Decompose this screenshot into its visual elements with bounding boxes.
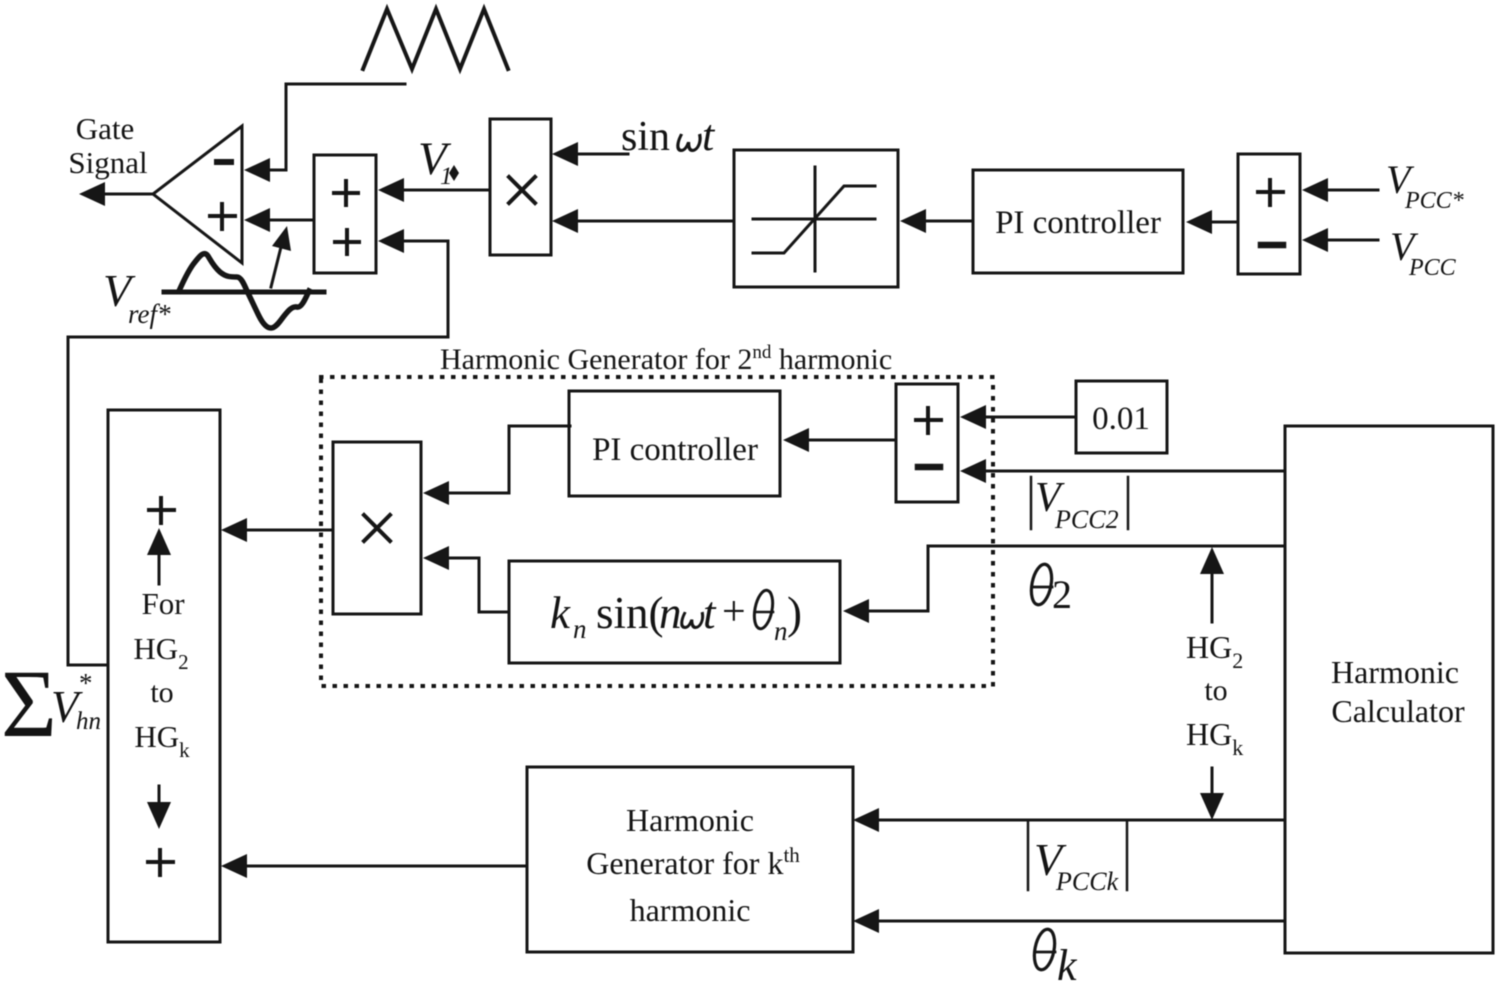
arrowhead VPCC [1302, 228, 1328, 252]
svg-text:sin(: sin( [596, 588, 664, 638]
arrowhead into S1 bottom [378, 229, 404, 253]
wire S2 to PI2 [807, 439, 896, 442]
For-box summation block [108, 410, 220, 942]
arrowhead into M2 lower [423, 546, 449, 570]
arrowhead gate signal [79, 182, 105, 206]
arrowhead VPCC* [1302, 178, 1328, 202]
arrowhead into comparator plus [244, 208, 270, 232]
arrowhead into PI2 [783, 428, 809, 452]
wire VPCC input [1327, 239, 1378, 242]
arrowhead into For-box top [221, 518, 247, 542]
svg-text:n: n [659, 588, 682, 638]
PI controller block U3 (2nd harmonic) [569, 391, 780, 496]
harmonic calculator block [1285, 426, 1493, 953]
wire carrier to comparator minus input [266, 84, 405, 170]
annotation arrow from squiggle to wire [271, 243, 282, 287]
saturation limiter block [734, 150, 898, 287]
greek omega glyph (formula) [681, 614, 703, 628]
svg-text:Σ: Σ [1, 650, 57, 757]
svg-text:Harmonic: Harmonic [1331, 654, 1459, 690]
arrowhead sin wt into M1 [552, 142, 578, 166]
svg-text:PI controller: PI controller [995, 205, 1161, 241]
arrowhead into PI1 [1186, 210, 1212, 234]
svg-text:PCC2: PCC2 [1054, 505, 1119, 534]
wire PI2 output to multiplier M2 [446, 426, 570, 493]
dotted harmonic generator 2nd box [321, 377, 993, 686]
arrowhead into For-box bottom [221, 854, 247, 878]
svg-text:n: n [774, 616, 788, 646]
S2 minus [918, 464, 940, 471]
wire sin wt into M1 [576, 153, 628, 156]
greek theta glyph (theta2 label) [1028, 563, 1054, 607]
svg-text:PI controller: PI controller [592, 432, 758, 468]
wire 0.01 to S2 plus [983, 416, 1076, 419]
M2 times symbol [364, 515, 390, 541]
arrowhead into S2 plus [960, 405, 986, 429]
For-box down arrow [158, 786, 161, 806]
arrowhead into comparator minus [244, 158, 270, 182]
M1 times symbol [509, 177, 535, 203]
summing block S1 [314, 155, 376, 273]
svg-text:to: to [150, 676, 173, 709]
S2tr minus [1261, 242, 1283, 249]
svg-text:PCC: PCC [1408, 255, 1457, 281]
svg-text:Calculator: Calculator [1331, 693, 1465, 729]
svg-text:Harmonic Generator for 2nd har: Harmonic Generator for 2nd harmonic [440, 342, 892, 376]
svg-text:harmonic: harmonic [630, 892, 751, 928]
0.01 constant block [1076, 381, 1167, 453]
svg-text:sin: sin [621, 114, 670, 160]
wire sum1 to comparator plus input [266, 219, 314, 222]
op-amp comparator U1 [153, 126, 242, 263]
wire VPCC2 from harmonic calculator to S2 minus [983, 470, 1285, 473]
wire kn block to M2 lower input [446, 558, 509, 612]
svg-text:ref*: ref* [128, 299, 171, 329]
S1 plus bottom [335, 230, 359, 254]
wire thetak from harmonic calculator to kth generator [877, 920, 1285, 923]
harmonic generator kth block [527, 767, 853, 952]
comparator plus label [210, 204, 235, 229]
svg-text:PCC*: PCC* [1404, 188, 1464, 214]
svg-text:n: n [573, 614, 587, 644]
svg-text:to: to [1204, 674, 1227, 707]
svg-text:Harmonic: Harmonic [626, 802, 754, 838]
svg-text:Generator for kth: Generator for kth [586, 843, 800, 881]
multiplier block M1 [490, 119, 551, 255]
saturation horizontal axis [753, 218, 875, 221]
kn sin block [509, 561, 840, 663]
arrowhead into saturation [900, 209, 926, 233]
svg-text:t: t [702, 111, 716, 160]
S2tr plus [1258, 180, 1283, 205]
Vref distorted sine squiggle [179, 254, 309, 328]
triangle carrier waveform [363, 9, 508, 69]
arrowhead into M2 upper [423, 481, 449, 505]
For-box plus top [149, 498, 174, 523]
wire sum S2tr to PI1 [1209, 221, 1238, 224]
svg-text:2: 2 [1052, 572, 1072, 617]
saturation vertical axis [814, 167, 817, 271]
svg-text:t: t [703, 588, 717, 638]
svg-text:k: k [550, 588, 571, 638]
svg-text:+: + [722, 589, 746, 635]
V1* subscript asterisk diamond [449, 165, 459, 181]
svg-text:Gate: Gate [76, 111, 135, 146]
wire VPCCk from harmonic calculator to kth generator [877, 819, 1285, 822]
HGk down arrow [1211, 768, 1214, 798]
arrowhead into S1 top [378, 178, 404, 202]
wire V1* from multiplier M1 to S1 [402, 189, 490, 192]
HG2 up arrow [1211, 568, 1214, 622]
wire kth generator to For-box bottom [244, 865, 527, 868]
svg-text:Signal: Signal [68, 145, 147, 180]
arrowhead thetak into kth generator [853, 909, 879, 933]
greek omega glyph (sin wt) [677, 136, 701, 151]
svg-text:k: k [1057, 941, 1078, 986]
svg-text:For: For [141, 586, 185, 621]
arrowhead VPCCk into kth generator [853, 808, 879, 832]
For-box plus bottom [148, 850, 173, 875]
wire VPCC* input [1327, 189, 1378, 192]
greek theta glyph (thetak label) [1031, 928, 1057, 972]
wire PI1 to saturation [925, 220, 973, 223]
feedback wire sum of harmonics into S1 bottom [68, 241, 448, 665]
Vref reference axis line [164, 290, 324, 295]
S1 plus top [334, 181, 358, 205]
multiplier block M2 [333, 442, 421, 614]
svg-text:1: 1 [440, 163, 453, 190]
PI controller block U2 [973, 170, 1183, 273]
arrowhead into S2 minus [960, 459, 986, 483]
arrowhead into M1 lower [552, 209, 578, 233]
greek theta glyph (formula) [751, 589, 775, 631]
wire theta2 from harmonic calculator to kn block [866, 546, 1285, 611]
For-box up arrow [158, 550, 161, 584]
gate signal output wire [102, 193, 153, 196]
summing block S2 (2nd harmonic) [896, 384, 958, 502]
svg-text:*: * [79, 668, 93, 698]
svg-text:0.01: 0.01 [1092, 401, 1150, 437]
saturation curve [753, 186, 875, 253]
VPCCk abs bars [1027, 821, 1030, 890]
VPCC2 abs bars [1030, 477, 1033, 529]
annotation arrowhead [272, 226, 291, 251]
summing block S2tr top right [1238, 154, 1300, 274]
wire saturation to M1 [576, 220, 734, 223]
svg-text:hn: hn [76, 708, 101, 735]
comparator minus label [217, 159, 231, 165]
arrowhead theta2 into kn block [843, 599, 869, 623]
svg-text:): ) [787, 588, 802, 638]
S2 plus [916, 408, 941, 433]
svg-text:PCCk: PCCk [1055, 867, 1119, 896]
wire M2 output to For-box [244, 529, 333, 532]
